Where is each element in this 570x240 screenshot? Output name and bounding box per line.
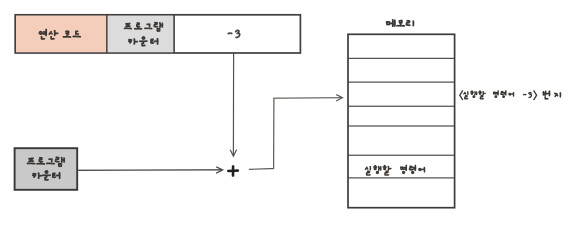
memory table (메모리) [348, 34, 455, 207]
memory cell text: 실행할 명령어 [365, 165, 425, 176]
wire: arrow from program counter to adder [78, 167, 222, 173]
cell: opcode (연산 코드) [16, 15, 107, 53]
memory title 메모리 [386, 19, 414, 27]
memory row line 5 [349, 154, 455, 156]
wire: vertical arrow from -3 cell down to adder [230, 54, 236, 157]
label: 〈실행할 명령어 -3〉 번지 [460, 90, 561, 100]
cell: operand -3 [228, 30, 241, 38]
adder + symbol [228, 166, 238, 175]
memory row line 3 [349, 105, 455, 107]
wire: elbow from adder to memory row [249, 95, 343, 170]
memory row line 1 [349, 57, 455, 59]
memory row line 6 [349, 177, 455, 179]
program counter box (프로그램 카운터) [15, 148, 78, 190]
memory row line 2 [349, 81, 455, 83]
cell: program counter field (프로그램 카운터) [108, 15, 174, 53]
memory row line 4 [349, 125, 455, 127]
register box (instruction register) [15, 15, 300, 53]
